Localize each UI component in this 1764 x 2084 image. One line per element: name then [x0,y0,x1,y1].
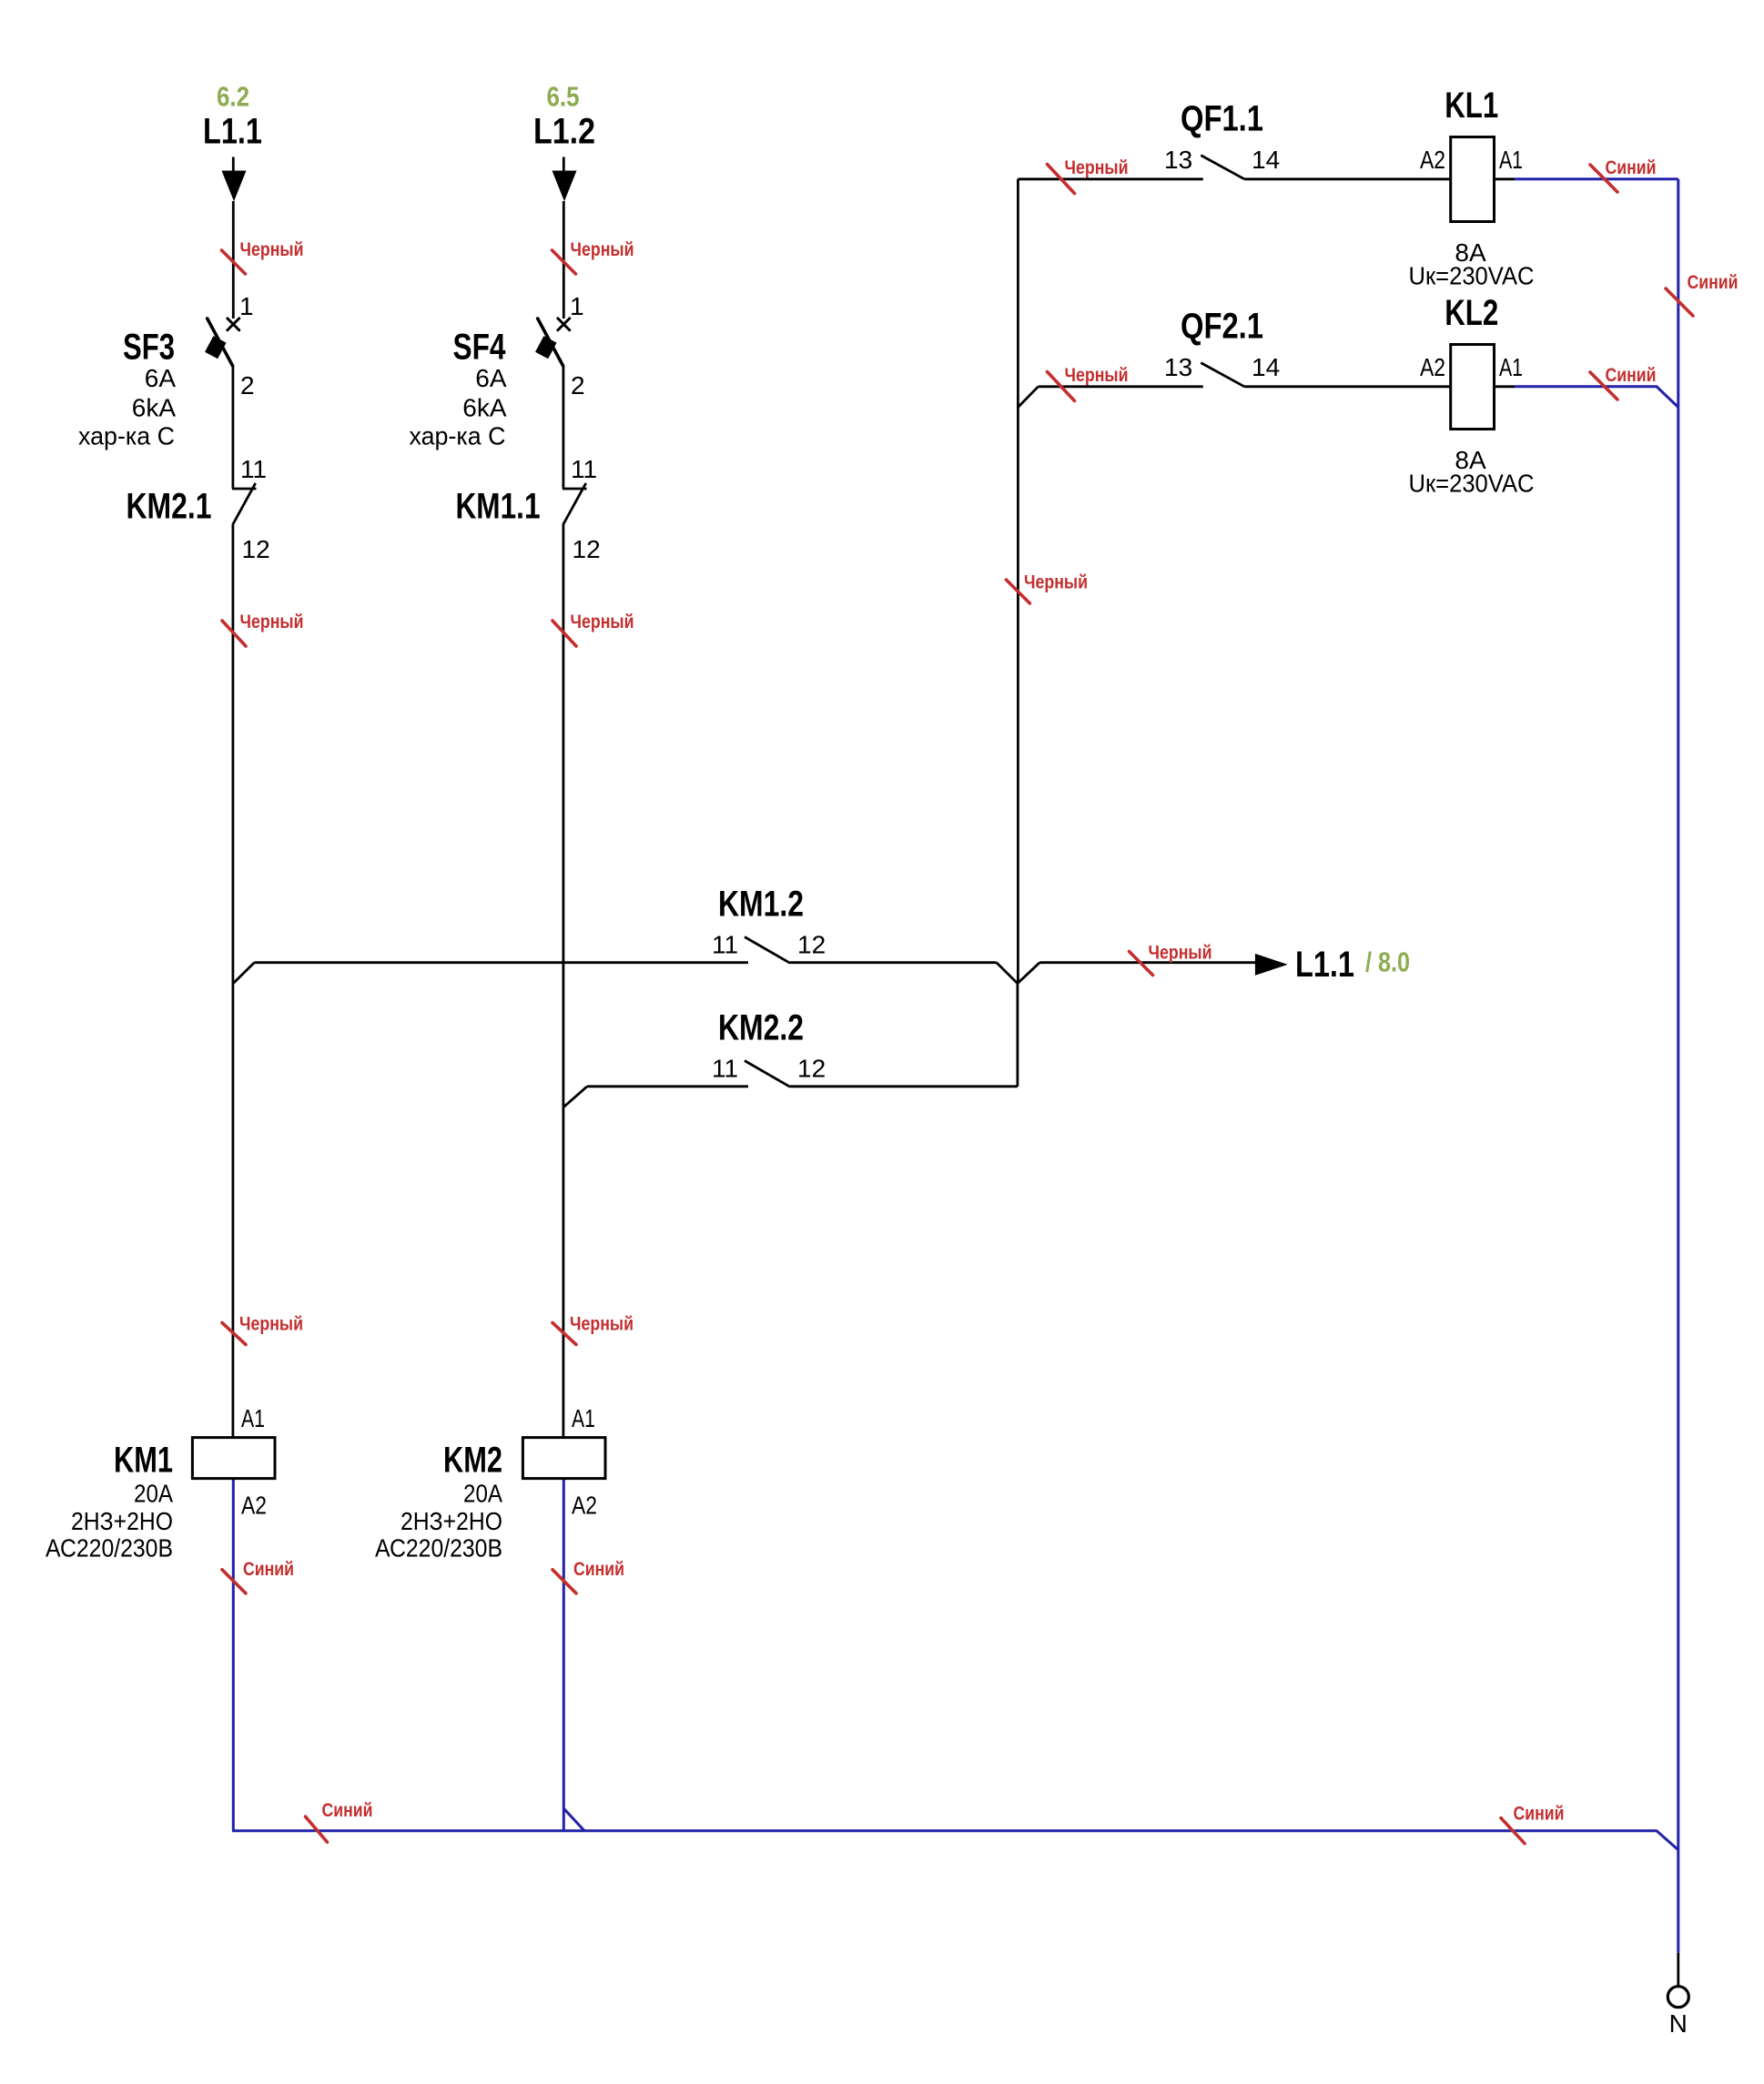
svg-text:Черный: Черный [1065,365,1129,386]
svg-text:13: 13 [1164,353,1192,381]
svg-text:2НЗ+2НО: 2НЗ+2НО [71,1507,173,1535]
svg-text:Черный: Черный [1024,572,1088,593]
svg-text:KM2.1: KM2.1 [127,487,212,527]
svg-text:11: 11 [712,931,738,959]
svg-text:11: 11 [712,1055,738,1083]
svg-text:Черный: Черный [240,612,304,632]
svg-text:KM2.2: KM2.2 [718,1008,804,1048]
svg-text:Синий: Синий [1688,272,1739,293]
svg-text:A2: A2 [1420,353,1445,381]
svg-text:6A: 6A [145,364,177,392]
svg-text:13: 13 [1164,146,1192,174]
svg-text:KM1.1: KM1.1 [456,487,541,527]
svg-text:Синий: Синий [1606,365,1657,386]
svg-text:L1.2: L1.2 [533,112,595,152]
svg-text:2: 2 [571,371,585,400]
svg-text:L1.1: L1.1 [203,112,262,152]
svg-text:Черный: Черный [1149,943,1212,964]
svg-text:Синий: Синий [243,1559,294,1580]
svg-text:6.5: 6.5 [547,81,580,113]
svg-text:QF1.1: QF1.1 [1181,99,1263,139]
svg-text:20A: 20A [134,1480,173,1508]
svg-text:Черный: Черный [1065,157,1129,178]
svg-text:хар-ка C: хар-ка C [410,422,506,450]
svg-text:6A: 6A [475,364,507,392]
svg-text:1: 1 [570,292,584,320]
svg-text:QF2.1: QF2.1 [1181,307,1263,347]
svg-text:6.2: 6.2 [217,81,249,113]
svg-text:12: 12 [242,535,270,563]
svg-text:A1: A1 [241,1404,265,1432]
svg-text:20A: 20A [463,1480,502,1508]
svg-text:АС220/230В: АС220/230В [46,1534,173,1563]
svg-text:Черный: Черный [571,612,634,632]
svg-text:A1: A1 [1499,146,1523,174]
svg-text:KM1.2: KM1.2 [718,885,804,925]
svg-text:12: 12 [797,931,826,959]
svg-text:2: 2 [240,371,255,400]
svg-text:KL1: KL1 [1445,86,1498,126]
svg-text:KM2: KM2 [443,1441,502,1481]
svg-text:/ 8.0: / 8.0 [1365,946,1410,978]
svg-text:KM1: KM1 [114,1441,173,1481]
svg-text:Синий: Синий [322,1800,373,1821]
svg-text:A2: A2 [1420,146,1445,174]
svg-text:SF4: SF4 [453,328,507,368]
svg-text:11: 11 [571,455,597,483]
svg-text:Синий: Синий [1606,157,1657,178]
svg-text:Черный: Черный [240,239,304,260]
svg-text:Черный: Черный [570,1314,634,1335]
svg-text:Синий: Синий [1514,1804,1565,1825]
svg-text:12: 12 [797,1055,826,1083]
svg-text:1: 1 [239,292,254,320]
svg-text:A1: A1 [1499,353,1523,381]
svg-text:N: N [1669,2009,1688,2038]
svg-text:A2: A2 [241,1492,267,1520]
svg-text:14: 14 [1252,353,1280,381]
svg-text:АС220/230В: АС220/230В [375,1534,502,1563]
svg-text:L1.1: L1.1 [1295,945,1354,985]
svg-text:KL2: KL2 [1445,293,1498,333]
svg-text:2НЗ+2НО: 2НЗ+2НО [400,1507,502,1535]
svg-text:SF3: SF3 [123,328,175,368]
svg-text:6kA: 6kA [462,394,507,422]
svg-text:A2: A2 [572,1492,597,1520]
svg-text:Черный: Черный [571,239,634,260]
svg-text:14: 14 [1252,146,1280,174]
svg-text:Синий: Синий [573,1559,624,1580]
svg-text:хар-ка C: хар-ка C [78,422,175,450]
svg-text:11: 11 [240,455,267,483]
svg-text:Uк=230VAC: Uк=230VAC [1409,262,1535,290]
svg-text:Uк=230VAC: Uк=230VAC [1409,470,1535,498]
svg-text:6kA: 6kA [132,394,177,422]
svg-text:Черный: Черный [239,1314,303,1335]
svg-text:12: 12 [573,535,601,563]
svg-text:A1: A1 [572,1404,595,1432]
